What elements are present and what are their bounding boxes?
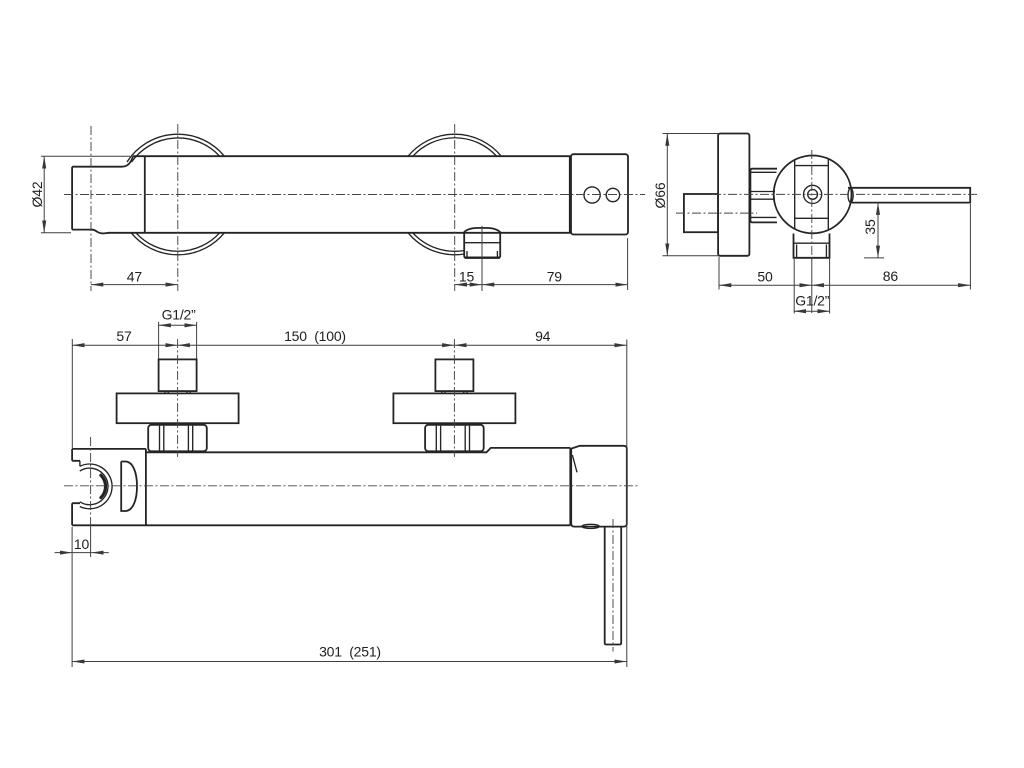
dim Ø66 line [666, 134, 668, 256]
wall plate (side view) [718, 134, 749, 256]
vertical centerline escutcheon 1 [177, 124, 179, 291]
dim 10 arrows [55, 552, 73, 554]
wall escutcheon circle 1 (top arcs) [127, 134, 224, 162]
bar end edge at cap [569, 156, 571, 233]
right extension line 94/301 [626, 340, 628, 668]
outlet connector below valve (side view) [794, 234, 830, 258]
svg-text:10: 10 [74, 536, 90, 552]
horizontal centerline of bar [64, 194, 645, 196]
dim 10 left extension line [71, 527, 73, 667]
vertical centerline escutcheon 2 [454, 124, 456, 291]
holder cup inner arc [80, 468, 108, 505]
hand shower holder cap (top view) [72, 156, 133, 233]
holder cup outer arc [80, 461, 112, 509]
dim 86 right extension line [969, 204, 971, 290]
dim 47 line [91, 284, 178, 286]
right wall escutcheon (front) [393, 393, 515, 423]
dim 50 left extension line [718, 257, 720, 290]
right mounting hex nut (front) [425, 425, 484, 452]
svg-text:47: 47 [127, 269, 143, 285]
main bar body (top view) [108, 156, 571, 233]
dim Ø66 extension lines [663, 134, 720, 256]
cartridge housing lines inside circle [795, 159, 829, 230]
hand shower holder bracket (front) [72, 449, 146, 525]
hole circle large [584, 187, 600, 203]
svg-text:50: 50 [757, 269, 773, 285]
diverter ellipse detail [582, 524, 599, 528]
svg-text:Ø66: Ø66 [652, 182, 668, 208]
hole circle small [606, 188, 619, 201]
vertical centerline left nut [177, 339, 179, 457]
wall inlet connector (side view) [684, 194, 718, 232]
wall escutcheon circle 2 (bottom-left arcs) [408, 233, 464, 255]
svg-text:79: 79 [547, 269, 563, 285]
svg-text:15: 15 [459, 269, 475, 285]
svg-text:G1/2”: G1/2” [795, 293, 830, 309]
dim G1/2 extension lines (side) [794, 259, 829, 314]
vertical centerline holder [90, 126, 92, 291]
dim 35 extension line [864, 257, 884, 259]
main bar body (front) [72, 448, 570, 525]
control end piece (front) [571, 446, 627, 527]
dim 94 line [454, 344, 626, 346]
dim Ø42 line [43, 156, 45, 233]
vertical centerline valve [811, 150, 813, 258]
svg-text:57: 57 [116, 328, 132, 344]
holder cup bore thick crescent [101, 475, 106, 497]
wall escutcheon circle 1 (bottom arcs) [131, 233, 224, 255]
end piece chamfer detail line [572, 455, 577, 472]
svg-text:35: 35 [862, 219, 878, 235]
dim 150 (100) line [178, 344, 455, 346]
right inlet nipple (front) [435, 359, 473, 391]
arm junction lens [848, 188, 853, 202]
dim 57 left extension line [71, 339, 73, 448]
vertical centerline holder cup [90, 437, 92, 525]
dim 79 right extension line [627, 238, 629, 290]
left mounting hex nut (front) [148, 425, 207, 452]
dim G1/2 arrows (side) [794, 310, 830, 312]
svg-text:94: 94 [535, 328, 551, 344]
dim 301 (251) line [72, 661, 627, 663]
dim 15 line [455, 284, 482, 286]
dim G1/2 extension lines (front top) [159, 322, 197, 359]
holder boss bulge [121, 462, 137, 512]
hex adapter facet lines [750, 172, 776, 217]
svg-text:301 (251): 301 (251) [319, 644, 381, 660]
wall escutcheon circle 2 (top arcs) [408, 134, 501, 156]
horizontal centerline bar (front) [64, 485, 640, 487]
left inlet nipple (front) [159, 359, 197, 391]
dim 57 line [72, 344, 177, 346]
dim 35 line [877, 203, 879, 258]
shower rail arm (side view) [848, 188, 970, 203]
dim 86 line [812, 284, 971, 286]
svg-text:Ø42: Ø42 [29, 181, 45, 207]
right nipple feet ticks [442, 391, 467, 393]
horizontal centerline valve [712, 193, 977, 195]
left wall escutcheon (front) [117, 393, 239, 423]
handle lever (front) [605, 527, 622, 645]
dim 50 line [719, 284, 812, 286]
shower hose outlet (top view) [464, 228, 501, 233]
hex adapter nut (side view) [750, 169, 777, 223]
vertical centerline right nut [453, 339, 455, 457]
center screw rosette [804, 185, 822, 203]
thermostat valve body circle (side view) [774, 156, 852, 234]
svg-text:G1/2”: G1/2” [162, 307, 197, 323]
dim G1/2 line (front top) [159, 324, 197, 326]
svg-text:86: 86 [883, 268, 899, 284]
control end cap (top view) [571, 154, 628, 234]
left nipple feet ticks [165, 391, 190, 393]
dim 79 line [482, 284, 628, 286]
vertical centerline outlet [481, 226, 483, 291]
svg-text:150 (100): 150 (100) [284, 328, 346, 344]
inlet connector centerline [676, 212, 757, 214]
dim Ø42 extension lines [41, 156, 130, 233]
handle centerline [612, 519, 614, 652]
